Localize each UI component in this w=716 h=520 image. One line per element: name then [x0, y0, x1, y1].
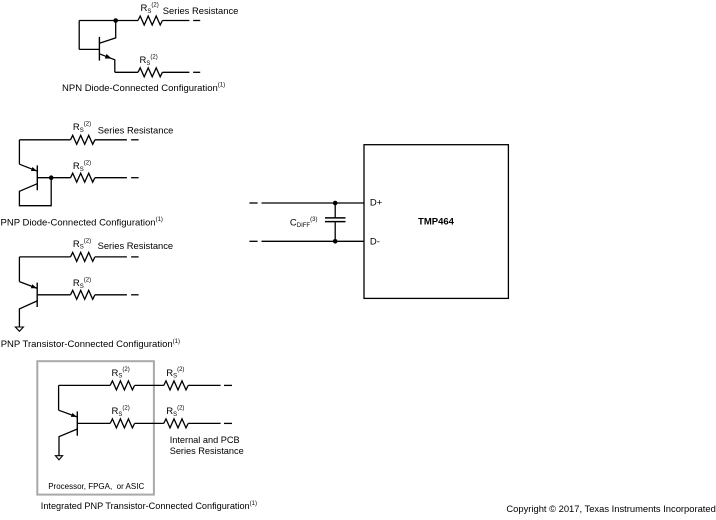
svg-text:Processor, FPGA, or ASIC: Processor, FPGA, or ASIC [48, 482, 144, 491]
svg-text:Series Resistance: Series Resistance [170, 446, 244, 456]
svg-text:PNP Transistor-Connected Confi: PNP Transistor-Connected Configuration(1… [1, 339, 180, 350]
svg-text:Copyright © 2017, Texas Instru: Copyright © 2017, Texas Instruments Inco… [506, 503, 715, 514]
svg-text:NPN Diode-Connected Configurat: NPN Diode-Connected Configuration(1) [62, 83, 225, 94]
svg-text:Series Resistance: Series Resistance [163, 5, 239, 16]
svg-text:PNP Diode-Connected Configurat: PNP Diode-Connected Configuration(1) [1, 217, 163, 228]
svg-text:Internal and PCB: Internal and PCB [170, 435, 240, 445]
svg-text:Integrated PNP Transistor-Conn: Integrated PNP Transistor-Connected Conf… [41, 501, 257, 511]
svg-text:D+: D+ [370, 197, 383, 208]
svg-text:Series Resistance: Series Resistance [98, 125, 174, 136]
svg-text:D-: D- [370, 236, 380, 247]
svg-text:TMP464: TMP464 [418, 217, 455, 228]
svg-text:Series Resistance: Series Resistance [98, 240, 174, 251]
